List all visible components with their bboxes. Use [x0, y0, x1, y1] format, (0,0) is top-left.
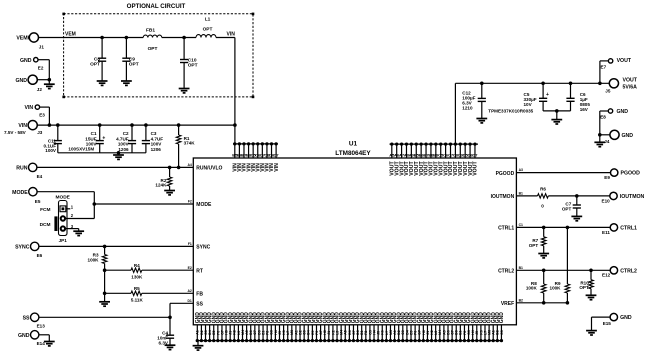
capacitor C8 (OPT) — [90, 36, 107, 86]
svg-text:E6: E6 — [37, 253, 43, 258]
ground (C4) — [165, 345, 176, 349]
svg-text:E10: E10 — [602, 199, 611, 204]
svg-text:E9: E9 — [604, 175, 610, 180]
svg-text:FCM: FCM — [40, 207, 50, 213]
svg-text:DCM: DCM — [40, 222, 51, 228]
svg-text:U1: U1 — [349, 140, 358, 147]
wire SS net — [39, 303, 193, 335]
wire VOUT net — [455, 82, 609, 145]
svg-text:J1: J1 — [39, 45, 45, 50]
svg-text:IOUTMON: IOUTMON — [491, 194, 515, 200]
wire VREF net — [516, 302, 567, 304]
svg-text:C3: C3 — [500, 330, 504, 335]
svg-text:VREF: VREF — [501, 301, 514, 307]
svg-text:F2: F2 — [188, 200, 192, 204]
jumper JP1 MODE select — [55, 195, 70, 243]
svg-text:VOUT: VOUT — [473, 161, 479, 176]
svg-text:VIN: VIN — [25, 105, 34, 111]
svg-text:GND: GND — [18, 333, 30, 339]
svg-text:100V: 100V — [45, 148, 57, 153]
terminal J1 VEMI — [16, 33, 44, 50]
svg-text:R5: R5 — [134, 286, 140, 291]
wire input capacitor ground rail — [58, 151, 146, 155]
svg-text:L1: L1 — [205, 17, 211, 23]
svg-text:E2: E2 — [38, 65, 44, 70]
svg-text:OPT: OPT — [562, 206, 572, 211]
ground (C5/C6) — [551, 120, 562, 124]
resistor R2 124K — [155, 166, 171, 191]
ferrite bead FB1 (OPT) — [143, 28, 162, 52]
terminal E15 GND — [603, 313, 632, 326]
ground (J4/E8) — [594, 142, 605, 146]
svg-text:SYNC: SYNC — [196, 245, 210, 251]
label DCM — [40, 222, 51, 228]
U1 right pin numbers — [519, 168, 523, 302]
svg-text:VIN: VIN — [274, 163, 280, 172]
title OPTIONAL CIRCUIT — [127, 3, 186, 10]
terminal E2 GND — [20, 58, 44, 71]
terminal J2 GND — [15, 75, 42, 92]
svg-text:OPTIONAL CIRCUIT: OPTIONAL CIRCUIT — [127, 3, 186, 10]
wire E15 to ground — [592, 317, 611, 331]
svg-text:PGOOD: PGOOD — [621, 171, 641, 177]
resistor R5 5.11K — [105, 286, 194, 302]
svg-text:J3: J3 — [37, 130, 43, 135]
terminal E12 CTRL2 — [602, 267, 637, 278]
wire MODE net — [37, 192, 193, 219]
capacitor C10 (OPT) — [179, 36, 198, 93]
capacitor C5 330uF 10V TPME337K010R0035 (polarized) — [488, 83, 549, 113]
svg-text:VEM: VEM — [65, 32, 76, 38]
terminal E4 RUN — [16, 163, 42, 179]
svg-text:OPT: OPT — [203, 26, 213, 32]
svg-text:OPT: OPT — [529, 243, 539, 248]
ground (E14) — [44, 342, 55, 346]
svg-text:R6: R6 — [540, 187, 546, 192]
inductor L1 (OPT) — [196, 17, 216, 38]
svg-text:SS: SS — [23, 315, 30, 321]
JP1 pin 3 — [61, 224, 79, 231]
svg-text:D7: D7 — [274, 153, 280, 158]
svg-text:+: + — [546, 92, 549, 98]
svg-text:B1: B1 — [519, 192, 523, 196]
svg-text:100K: 100K — [526, 286, 538, 291]
svg-text:E2: E2 — [188, 266, 192, 270]
svg-text:JP1: JP1 — [59, 238, 68, 243]
svg-text:FB: FB — [196, 292, 203, 298]
svg-text:E12: E12 — [602, 273, 611, 278]
wire E7 drop — [600, 61, 609, 83]
ground (input capacitors) — [113, 155, 124, 159]
jumper shunt (DCM position) — [54, 216, 57, 231]
svg-text:CTRL2: CTRL2 — [620, 268, 637, 274]
op-amp U1 LTM8064EY module body — [193, 140, 516, 324]
wire SYNC net — [39, 245, 193, 249]
terminal E5 MODE — [12, 188, 41, 204]
wire J2 to ground — [37, 78, 51, 84]
terminal E13 SS — [23, 313, 46, 329]
ground (C7) — [571, 216, 582, 220]
svg-text:+: + — [102, 136, 105, 142]
svg-text:GND: GND — [499, 312, 505, 324]
optional circuit dashed box — [62, 13, 254, 99]
svg-text:MODE: MODE — [55, 195, 70, 201]
svg-text:100SXV15M: 100SXV15M — [68, 146, 94, 151]
svg-text:J2: J2 — [37, 87, 43, 92]
U1 right pin names — [491, 171, 515, 307]
svg-text:374K: 374K — [184, 141, 196, 146]
resistor R7 (OPT) — [529, 227, 546, 253]
svg-text:C1: C1 — [519, 223, 523, 227]
svg-text:16V: 16V — [580, 107, 589, 112]
resistor R8 100K — [526, 270, 546, 304]
terminal E7 VOUT — [601, 58, 632, 69]
svg-text:E7: E7 — [601, 65, 607, 70]
U1 top VIN pin bank — [232, 142, 280, 172]
capacitor C12 100uF 6.3V 1210 — [462, 83, 486, 118]
resistor R10 (OPT) — [579, 270, 593, 295]
svg-text:MODE: MODE — [196, 202, 212, 208]
svg-text:10V: 10V — [524, 102, 533, 107]
wire C5/C6 ground rail — [543, 109, 570, 120]
resistor R6 0 — [538, 187, 549, 209]
svg-text:VIN: VIN — [227, 32, 236, 38]
svg-text:OPT: OPT — [579, 285, 589, 290]
resistor R4 130K — [105, 263, 194, 279]
svg-text:D1: D1 — [187, 299, 191, 303]
svg-text:7.5V - 58V: 7.5V - 58V — [4, 130, 27, 135]
svg-text:TPME337K010R0035: TPME337K010R0035 — [488, 108, 533, 113]
ground (R3/R4/R5) — [99, 302, 110, 306]
svg-text:E5: E5 — [35, 199, 41, 204]
svg-text:100K: 100K — [550, 286, 562, 291]
svg-text:E8: E8 — [600, 115, 606, 120]
wire PGOOD net — [516, 172, 610, 174]
resistor R9 100K — [550, 227, 570, 304]
svg-text:MODE: MODE — [12, 190, 28, 196]
svg-text:OPT: OPT — [148, 46, 158, 52]
ground (R2) — [164, 191, 175, 195]
svg-text:GND: GND — [622, 133, 634, 139]
svg-text:A2: A2 — [187, 289, 191, 293]
wire CTRL1 net — [516, 226, 610, 230]
terminal J3 VIN 7.5V-58V — [4, 121, 43, 135]
terminal E14 GND — [18, 331, 45, 346]
wire IOUTMON net — [516, 194, 609, 198]
svg-text:SS: SS — [196, 302, 203, 308]
svg-text:RUN: RUN — [16, 166, 27, 172]
wire J4 to ground — [600, 135, 610, 143]
svg-text:130K: 130K — [131, 274, 143, 279]
label FCM — [40, 207, 50, 213]
svg-text:SYNC: SYNC — [15, 245, 30, 251]
svg-text:A4: A4 — [187, 163, 191, 167]
U1 left pin names — [196, 166, 222, 308]
terminal J4 GND — [604, 130, 633, 144]
capacitor C9 (OPT) — [121, 36, 139, 86]
svg-text:5.11K: 5.11K — [131, 298, 144, 303]
wire E2 to J2 — [38, 60, 49, 80]
JP1 pin 1 (FCM, square pad) — [60, 204, 74, 211]
svg-text:1210: 1210 — [462, 105, 473, 110]
svg-text:IOUTMON: IOUTMON — [620, 194, 645, 200]
ground (U1 GND bank) — [193, 341, 204, 351]
svg-text:1206: 1206 — [118, 147, 129, 152]
svg-text:D7: D7 — [472, 153, 478, 158]
U1 top VOUT pin bank — [389, 142, 478, 175]
terminal E11 CTRL1 — [602, 224, 637, 235]
svg-text:E3: E3 — [39, 113, 45, 118]
capacitor C1 15uF 100V 100SXV15M (polarized) — [68, 123, 105, 153]
wire E3 drop to VIN rail — [40, 107, 50, 125]
terminal E3 VIN — [25, 105, 46, 118]
svg-text:VOUT: VOUT — [617, 58, 632, 64]
ground (C12) — [476, 119, 487, 123]
svg-text:VOUT: VOUT — [623, 78, 638, 84]
svg-text:CTRL1: CTRL1 — [620, 226, 637, 232]
svg-text:E4: E4 — [37, 174, 43, 179]
svg-text:PGOOD: PGOOD — [496, 171, 515, 177]
svg-text:124K: 124K — [155, 183, 167, 188]
svg-text:F1: F1 — [188, 242, 192, 246]
wire RUN net to RUN/UVLO pin — [37, 166, 193, 168]
node VIN (optional circuit output) — [227, 32, 236, 38]
terminal E6 SYNC — [15, 242, 43, 258]
capacitor C7 (OPT) — [562, 196, 581, 217]
svg-text:CTRL2: CTRL2 — [498, 269, 514, 275]
svg-text:1206: 1206 — [151, 147, 162, 152]
ground (R7) — [538, 254, 549, 258]
svg-text:OPT: OPT — [129, 61, 139, 67]
svg-text:5V/6A: 5V/6A — [623, 85, 638, 91]
capacitor C4 10nF 6.3V — [157, 331, 174, 346]
svg-text:0: 0 — [541, 203, 544, 208]
svg-text:LTM8064EY: LTM8064EY — [335, 150, 371, 157]
svg-text:GND: GND — [15, 78, 27, 84]
capacitor C3 4.7uF 100V 1206 — [142, 123, 164, 153]
svg-text:GND: GND — [20, 58, 32, 64]
svg-text:A3: A3 — [519, 168, 523, 172]
svg-text:GND: GND — [620, 315, 632, 321]
svg-text:RT: RT — [196, 268, 203, 274]
wire CTRL2 net — [516, 269, 610, 273]
svg-text:VIN: VIN — [18, 123, 27, 129]
wire VEM/VIN net through optional circuit — [39, 38, 235, 144]
svg-text:GND: GND — [617, 109, 629, 115]
svg-text:CTRL1: CTRL1 — [498, 226, 514, 232]
terminal E9 PGOOD — [604, 169, 640, 180]
svg-text:FB1: FB1 — [146, 28, 155, 34]
capacitor C11 0.1uF 100V — [43, 123, 61, 153]
wire E14 to ground — [39, 335, 49, 342]
svg-text:OPT: OPT — [188, 63, 198, 69]
svg-text:J5: J5 — [605, 89, 611, 94]
terminal J5 VOUT 5V/6A — [605, 78, 637, 94]
svg-text:VEMI: VEMI — [16, 36, 29, 42]
svg-text:RUN/UVLO: RUN/UVLO — [196, 166, 222, 172]
svg-text:R4: R4 — [134, 263, 140, 268]
ground (JP1 pin 3) — [73, 231, 84, 235]
wire VIN rail — [37, 123, 236, 127]
resistor R3 100K — [88, 246, 107, 301]
resistor R1 374K — [176, 123, 195, 169]
svg-text:E11: E11 — [602, 230, 610, 235]
ground (E15) — [586, 331, 597, 335]
terminal E8 GND — [600, 109, 628, 120]
wire E8 to J4 — [598, 111, 608, 137]
capacitor C2 4.7uF 100V 1206 — [116, 123, 136, 153]
svg-text:B1: B1 — [519, 266, 523, 270]
svg-text:B2: B2 — [519, 298, 523, 302]
U1 left pin numbers — [187, 163, 191, 303]
terminal E10 IOUTMON — [602, 192, 645, 203]
JP1 pin 2 — [61, 213, 74, 221]
ground (J2/E2) — [44, 84, 55, 88]
svg-text:E13: E13 — [37, 324, 46, 329]
ground (R10) — [586, 295, 597, 299]
U1 bottom GND pin bank — [195, 312, 505, 342]
svg-text:OPT: OPT — [90, 61, 100, 67]
node VEM — [65, 32, 76, 38]
svg-text:E15: E15 — [603, 321, 612, 326]
capacitor C6 1uF 0805 16V — [566, 83, 590, 112]
svg-text:100K: 100K — [88, 257, 100, 262]
